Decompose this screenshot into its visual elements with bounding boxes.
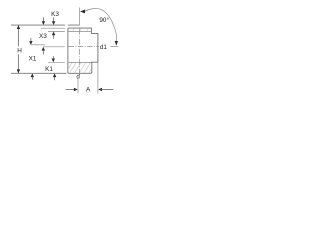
dimension line L1 (top reference level): [11, 24, 80, 26]
extension line port axis level left: [43, 46, 65, 48]
A arrow right-pointing: [74, 88, 78, 91]
body inner line top band bottom: [68, 31, 91, 33]
hatch bottom band: [68, 63, 92, 74]
H arrow up: [17, 25, 20, 29]
X1 arrow down: [29, 41, 32, 45]
K3 arrow up: [52, 32, 55, 36]
K3 arrow down: [52, 21, 55, 25]
K1 arrow down: [52, 59, 55, 63]
K1 leader tick bottom: [54, 77, 56, 80]
X3 leader tick bottom: [42, 51, 44, 55]
A dimension right tail: [102, 89, 114, 91]
hatch top band: [73, 28, 89, 31]
svg-text:K1: K1: [45, 66, 53, 73]
extension line L5 (lower socket level): [48, 61, 65, 63]
X1 arrow up: [31, 73, 34, 77]
X1 leader tick bottom: [31, 77, 33, 80]
arc arrowhead down (at horizontal axis): [115, 41, 118, 46]
H dimension line: [17, 25, 19, 73]
dimension line L6 (bottom level): [11, 72, 67, 74]
svg-text:A: A: [86, 86, 91, 93]
X1 leader tick top: [30, 38, 32, 41]
90 degree arc: [85, 8, 117, 42]
axis extension right of d1: [110, 45, 118, 47]
K3 leader tick bottom: [53, 35, 55, 39]
extension line L2 (body top level): [41, 27, 65, 29]
axis extension above body: [79, 8, 81, 26]
extension line A-right: [97, 62, 99, 93]
H arrow down: [17, 69, 20, 73]
extension line L4 (X1 top level): [30, 44, 45, 46]
arc arrowhead left (at vertical axis): [80, 10, 85, 14]
body outline: [68, 28, 98, 73]
centerline vertical axis (dash-dot): [79, 29, 81, 76]
svg-text:d: d: [76, 74, 80, 81]
X3 arrow up: [42, 47, 45, 51]
K1 arrow up: [53, 73, 56, 77]
extension line d / A-left: [77, 79, 79, 93]
X3 leader tick top: [42, 17, 44, 21]
svg-text:90°: 90°: [99, 16, 109, 24]
X3 arrow down: [42, 21, 45, 25]
A dimension left tail: [66, 89, 75, 91]
svg-text:X1: X1: [29, 56, 37, 63]
centerline horizontal axis (dash-dot): [69, 46, 99, 48]
svg-text:K3: K3: [51, 11, 59, 18]
svg-text:X3: X3: [39, 33, 47, 40]
K3 leader tick top: [53, 17, 55, 21]
svg-text:d1: d1: [100, 44, 108, 51]
body inner line bottom band top: [68, 61, 92, 63]
extension line L3 (socket end level): [48, 31, 65, 33]
K1 leader tick top: [52, 56, 54, 58]
svg-text:H: H: [17, 48, 22, 55]
A arrow left-pointing: [98, 88, 102, 91]
